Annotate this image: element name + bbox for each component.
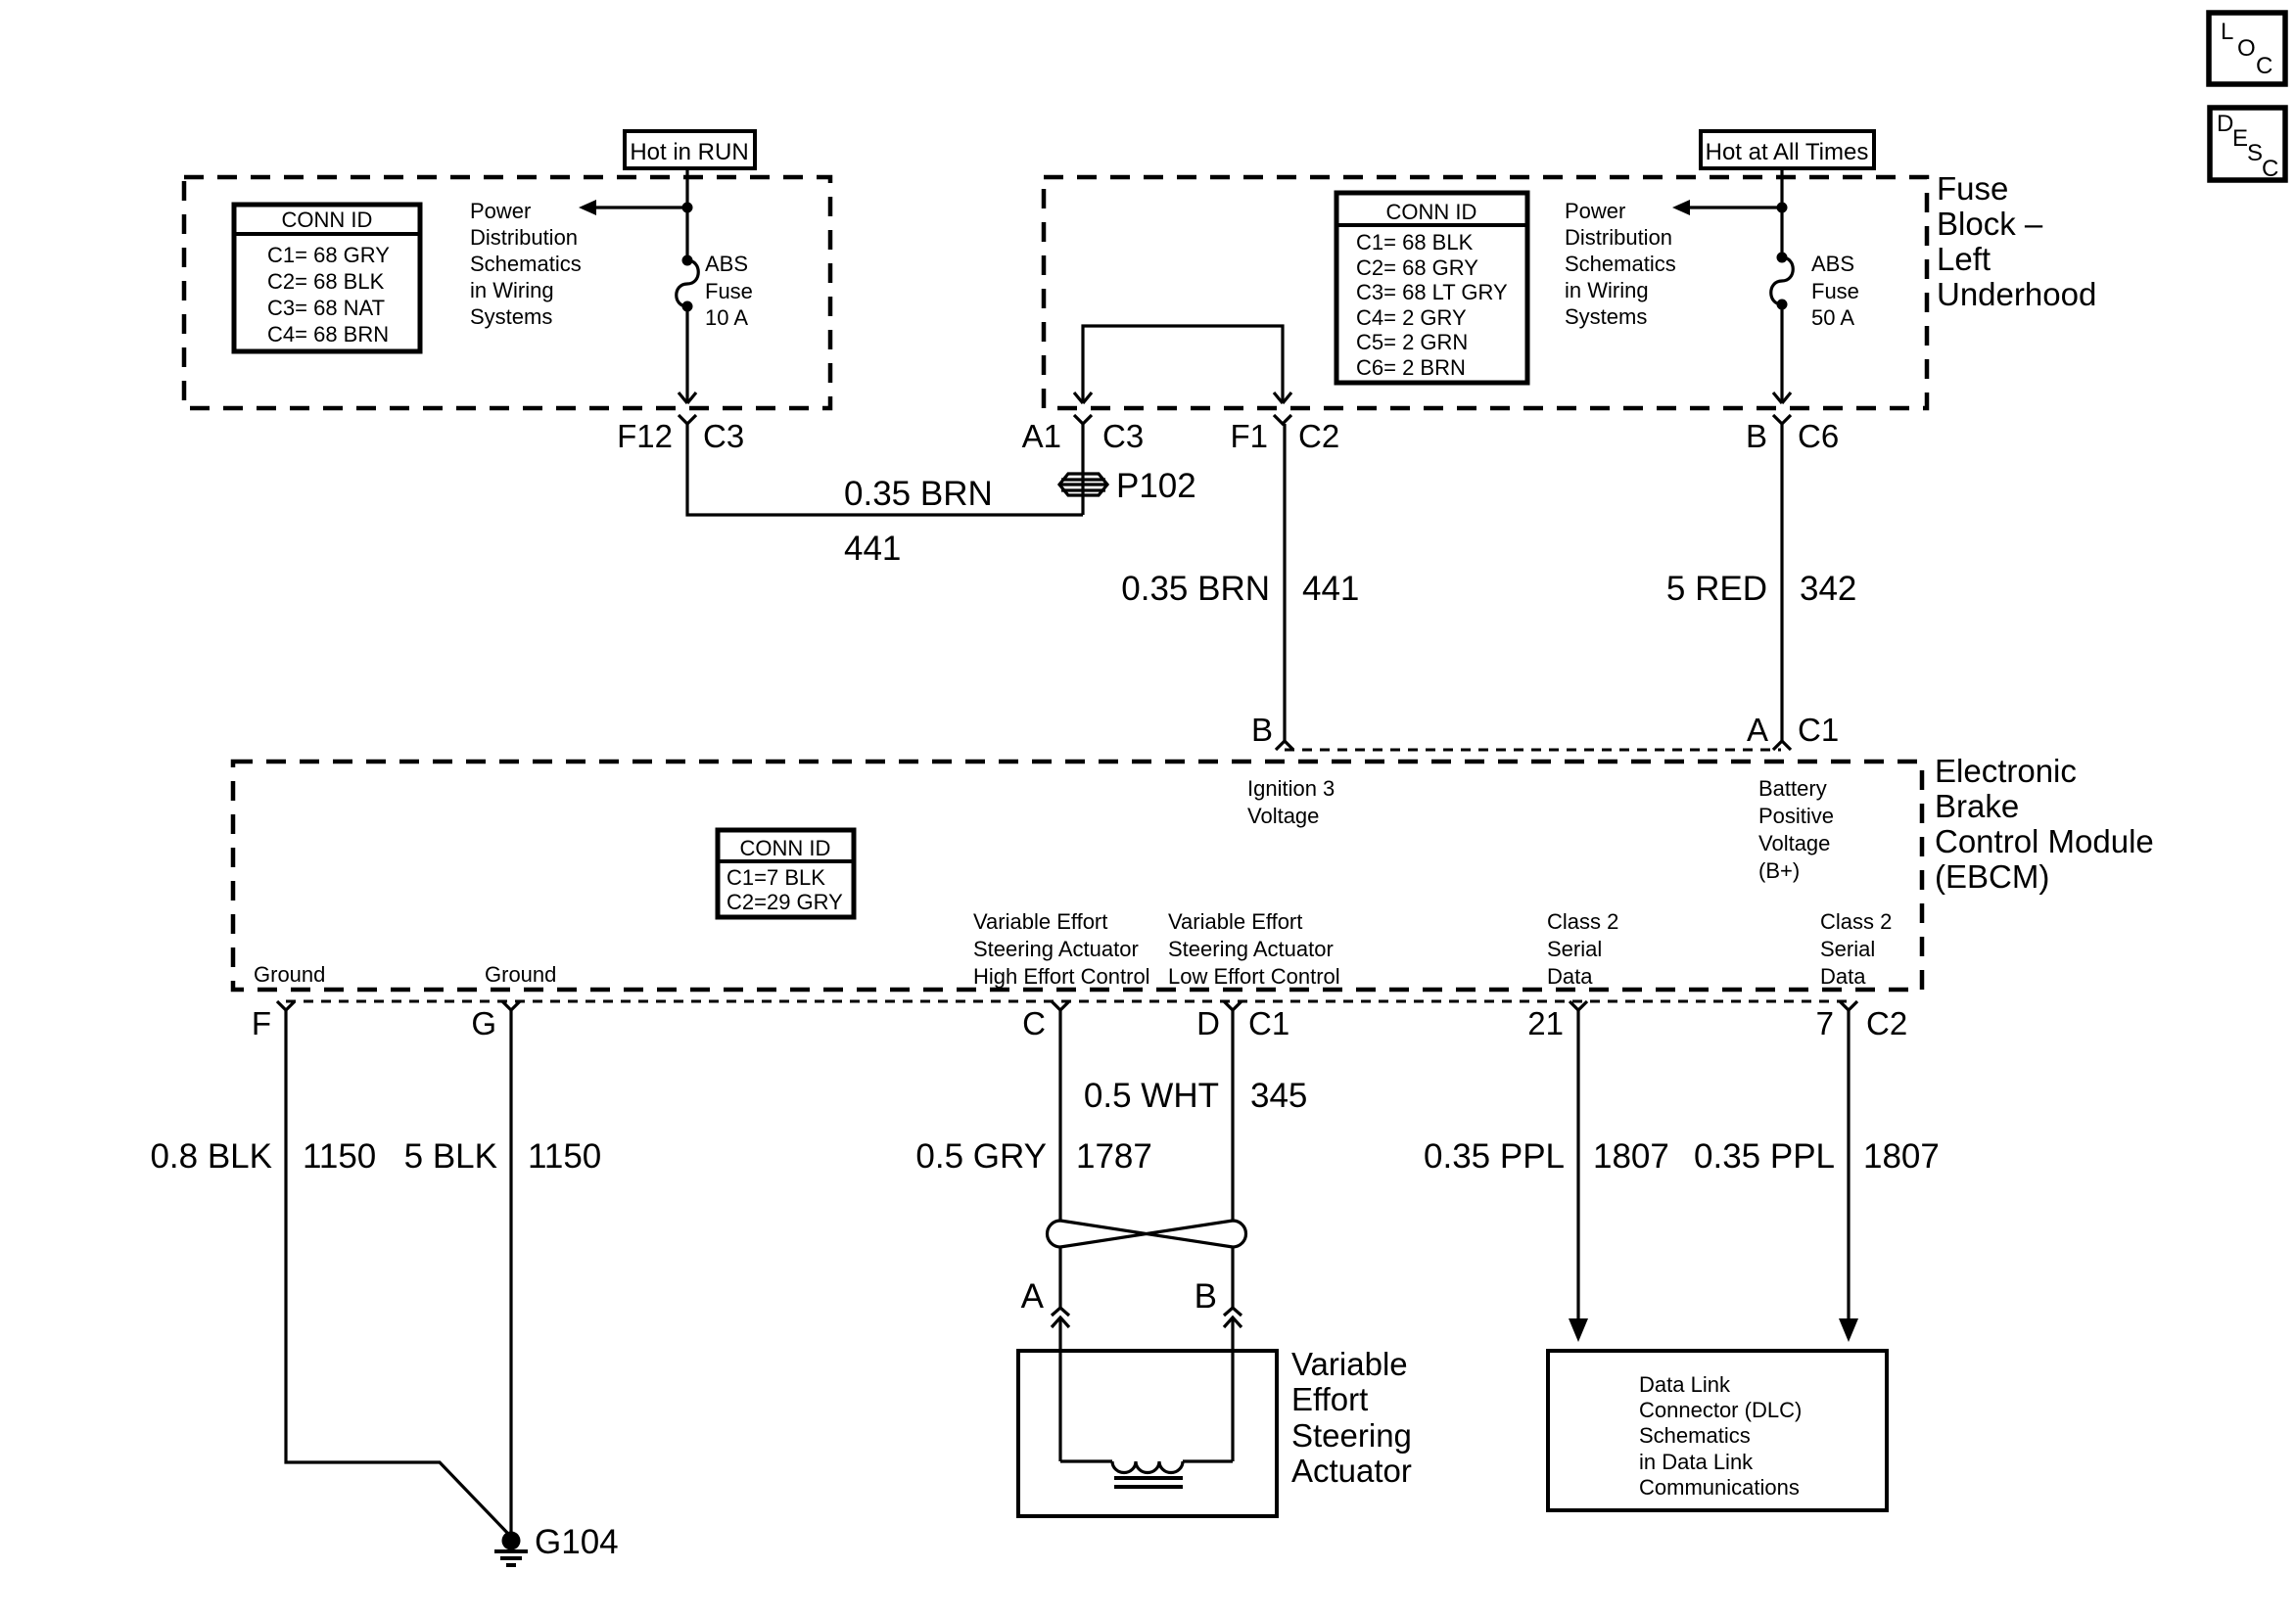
label box Hot in RUN <box>625 131 755 168</box>
svg-text:0.35 PPL: 0.35 PPL <box>1424 1137 1565 1176</box>
fuse ABS Fuse 10 A <box>677 252 753 330</box>
svg-text:Effort: Effort <box>1291 1381 1368 1417</box>
wire 441 from F12 to splice P102 <box>687 424 1083 515</box>
svg-text:ABS: ABS <box>705 252 748 276</box>
svg-text:O: O <box>2237 35 2256 62</box>
svg-text:1150: 1150 <box>303 1137 376 1176</box>
svg-text:Fuse: Fuse <box>705 279 753 303</box>
svg-text:Class 2: Class 2 <box>1547 909 1618 934</box>
node junction dot <box>682 203 693 213</box>
svg-text:0.35 BRN: 0.35 BRN <box>1121 570 1270 608</box>
svg-text:342: 342 <box>1800 570 1856 608</box>
svg-text:C6= 2 BRN: C6= 2 BRN <box>1356 355 1466 380</box>
svg-text:P102: P102 <box>1116 467 1196 505</box>
wire from Hot at All Times to fuse 50A <box>1780 168 1783 257</box>
wire pin 21 to DLC circuit 1807 <box>1576 1010 1579 1319</box>
svg-text:C: C <box>1022 1005 1046 1041</box>
wire pin D circuit 345 <box>1231 1010 1234 1461</box>
svg-text:C1=7 BLK: C1=7 BLK <box>726 865 825 890</box>
svg-text:C: C <box>2262 156 2278 182</box>
pin F connector <box>277 1001 295 1010</box>
arrow into pin B <box>1773 393 1791 403</box>
svg-text:Voltage: Voltage <box>1758 831 1830 855</box>
svg-text:10 A: 10 A <box>705 305 748 330</box>
svg-text:Distribution: Distribution <box>470 225 578 250</box>
wire from Hot in RUN to fuse F10A <box>685 168 688 260</box>
svg-text:Battery: Battery <box>1758 776 1827 801</box>
internal bus wire A1 to F1 <box>1083 326 1283 403</box>
svg-text:Fuse: Fuse <box>1937 170 2008 207</box>
svg-text:C2=29 GRY: C2=29 GRY <box>726 890 843 914</box>
svg-text:S: S <box>2247 140 2263 166</box>
wire arrow to power distribution <box>1687 206 1782 208</box>
CONN ID table fuse block left underhood <box>1336 193 1527 383</box>
svg-text:C2= 68 BLK: C2= 68 BLK <box>267 269 385 294</box>
actuator coil inductor <box>1060 1461 1233 1487</box>
svg-text:A: A <box>1747 712 1768 748</box>
svg-text:Steering: Steering <box>1291 1417 1412 1454</box>
svg-text:0.5 GRY: 0.5 GRY <box>915 1137 1047 1176</box>
svg-text:0.5 WHT: 0.5 WHT <box>1084 1077 1219 1115</box>
pin B of actuator <box>1224 1308 1242 1327</box>
svg-text:Variable Effort: Variable Effort <box>973 909 1107 934</box>
svg-text:Variable: Variable <box>1291 1346 1408 1382</box>
svg-text:D: D <box>1196 1005 1220 1041</box>
svg-text:Control Module: Control Module <box>1935 823 2154 859</box>
svg-text:C2: C2 <box>1866 1005 1907 1041</box>
pin 7 C2 connector <box>1840 1001 1857 1010</box>
svg-text:Hot in RUN: Hot in RUN <box>630 139 748 165</box>
DESC reference box <box>2210 108 2285 182</box>
svg-text:C1= 68 GRY: C1= 68 GRY <box>267 243 390 267</box>
svg-text:B: B <box>1251 712 1273 748</box>
svg-text:E: E <box>2232 125 2248 152</box>
pin F1 C2 connector <box>1274 415 1291 424</box>
svg-text:G: G <box>471 1005 496 1041</box>
svg-text:345: 345 <box>1250 1077 1307 1115</box>
svg-text:441: 441 <box>844 530 901 568</box>
svg-text:C2= 68 GRY: C2= 68 GRY <box>1356 255 1478 280</box>
svg-text:Fuse: Fuse <box>1811 279 1859 303</box>
svg-text:Serial: Serial <box>1547 937 1602 961</box>
svg-text:Serial: Serial <box>1820 937 1875 961</box>
svg-text:B: B <box>1195 1277 1217 1316</box>
svg-text:Electronic: Electronic <box>1935 753 2077 789</box>
svg-text:in Wiring: in Wiring <box>470 278 554 302</box>
svg-text:Ignition 3: Ignition 3 <box>1247 776 1335 801</box>
svg-text:Power: Power <box>470 199 531 223</box>
svg-text:Low Effort Control: Low Effort Control <box>1168 964 1340 989</box>
svg-text:Brake: Brake <box>1935 788 2019 824</box>
svg-text:21: 21 <box>1527 1005 1564 1041</box>
splice P102 <box>1059 467 1196 505</box>
svg-text:ABS: ABS <box>1811 252 1854 276</box>
wire pin C circuit 1787 <box>1058 1010 1061 1461</box>
svg-text:CONN ID: CONN ID <box>740 836 831 860</box>
svg-text:Voltage: Voltage <box>1247 804 1319 828</box>
EBCM connector line top <box>1285 749 1781 752</box>
svg-text:F1: F1 <box>1230 418 1268 454</box>
pin G connector <box>502 1001 520 1010</box>
svg-text:5 RED: 5 RED <box>1666 570 1767 608</box>
svg-text:Communications: Communications <box>1639 1475 1800 1500</box>
svg-text:CONN ID: CONN ID <box>1386 200 1477 224</box>
svg-text:7: 7 <box>1816 1005 1834 1041</box>
svg-text:C3= 68 LT GRY: C3= 68 LT GRY <box>1356 280 1508 304</box>
svg-text:Class 2: Class 2 <box>1820 909 1892 934</box>
svg-text:C1: C1 <box>1248 1005 1289 1041</box>
svg-text:0.8 BLK: 0.8 BLK <box>150 1137 272 1176</box>
svg-text:Steering Actuator: Steering Actuator <box>1168 937 1334 961</box>
svg-text:1807: 1807 <box>1593 1137 1669 1176</box>
svg-text:Ground: Ground <box>485 962 556 987</box>
svg-text:Data: Data <box>1820 964 1866 989</box>
svg-text:F: F <box>252 1005 271 1041</box>
LOC reference box <box>2209 13 2285 84</box>
pin A1 C3 connector <box>1074 415 1092 424</box>
wire F1 to EBCM pin B circuit 441 <box>1283 424 1286 741</box>
svg-text:Underhood: Underhood <box>1937 276 2096 312</box>
twisted pair symbol <box>1048 1221 1246 1247</box>
pin C connector <box>1052 1001 1069 1010</box>
EBCM connector line bottom <box>286 1000 1849 1003</box>
svg-text:Schematics: Schematics <box>1565 252 1676 276</box>
svg-text:0.35 PPL: 0.35 PPL <box>1694 1137 1835 1176</box>
label box Hot at All Times <box>1701 131 1874 168</box>
svg-text:Variable Effort: Variable Effort <box>1168 909 1302 934</box>
svg-text:C4= 68 BRN: C4= 68 BRN <box>267 322 389 346</box>
wire fuse to pin F12 <box>685 306 688 403</box>
svg-text:C1= 68 BLK: C1= 68 BLK <box>1356 230 1474 254</box>
svg-text:Hot at All Times: Hot at All Times <box>1706 139 1869 165</box>
svg-text:Data: Data <box>1547 964 1593 989</box>
arrow into pin A1 <box>1074 393 1092 403</box>
node junction dot <box>1777 203 1788 213</box>
pin B of EBCM <box>1276 741 1293 750</box>
svg-text:Schematics: Schematics <box>1639 1423 1751 1448</box>
CONN ID table fuse block I/P <box>234 205 420 351</box>
svg-text:1150: 1150 <box>528 1137 601 1176</box>
pin B C6 connector <box>1773 415 1791 424</box>
svg-text:Power: Power <box>1565 199 1625 223</box>
wire pin 7 to DLC circuit 1807 <box>1847 1010 1850 1319</box>
svg-text:50 A: 50 A <box>1811 305 1854 330</box>
svg-text:Actuator: Actuator <box>1291 1453 1412 1489</box>
svg-text:Connector (DLC): Connector (DLC) <box>1639 1398 1802 1422</box>
svg-text:Ground: Ground <box>254 962 325 987</box>
EBCM dashed outline <box>233 762 1922 990</box>
arrow into connector F12 <box>679 393 696 403</box>
svg-text:Positive: Positive <box>1758 804 1834 828</box>
svg-text:Systems: Systems <box>470 304 552 329</box>
svg-text:(EBCM): (EBCM) <box>1935 858 2049 895</box>
svg-text:1787: 1787 <box>1076 1137 1152 1176</box>
svg-text:G104: G104 <box>535 1523 619 1561</box>
svg-text:1807: 1807 <box>1863 1137 1940 1176</box>
svg-text:Data Link: Data Link <box>1639 1372 1731 1397</box>
wire arrow to power distribution <box>593 206 687 208</box>
svg-text:Left: Left <box>1937 241 1991 277</box>
data link connector DLC box <box>1548 1351 1887 1510</box>
variable effort steering actuator box <box>1018 1351 1277 1516</box>
svg-text:F12: F12 <box>617 418 673 454</box>
svg-text:in Wiring: in Wiring <box>1565 278 1649 302</box>
fuse block I/P dashed outline <box>184 177 830 408</box>
svg-text:Block –: Block – <box>1937 206 2043 242</box>
pin A C1 of EBCM <box>1773 741 1791 750</box>
svg-text:D: D <box>2217 111 2233 137</box>
svg-text:C5= 2 GRN: C5= 2 GRN <box>1356 330 1468 354</box>
svg-text:C3= 68 NAT: C3= 68 NAT <box>267 296 385 320</box>
wire C6 to EBCM pin A circuit 342 <box>1780 424 1783 741</box>
svg-text:CONN ID: CONN ID <box>282 208 373 232</box>
pin A of actuator <box>1052 1308 1069 1327</box>
pin 21 connector <box>1570 1001 1587 1010</box>
fuse block left underhood dashed outline <box>1044 177 1927 408</box>
svg-text:B: B <box>1746 418 1767 454</box>
ground G104 <box>494 1523 619 1565</box>
pin D C1 connector <box>1224 1001 1242 1010</box>
svg-text:441: 441 <box>1302 570 1359 608</box>
svg-text:(B+): (B+) <box>1758 858 1800 883</box>
svg-text:A: A <box>1021 1277 1045 1316</box>
svg-text:in Data Link: in Data Link <box>1639 1450 1754 1474</box>
svg-text:C: C <box>2256 53 2273 79</box>
svg-text:Distribution: Distribution <box>1565 225 1672 250</box>
wire pin G ground circuit 1150 <box>509 1010 512 1537</box>
wire pin F ground circuit 1150 <box>286 1010 511 1537</box>
svg-text:Steering Actuator: Steering Actuator <box>973 937 1139 961</box>
svg-text:0.35 BRN: 0.35 BRN <box>844 475 993 513</box>
arrow into pin F1 <box>1274 393 1291 403</box>
svg-text:C4= 2 GRY: C4= 2 GRY <box>1356 305 1467 330</box>
pin F12 C3 connector <box>679 415 696 424</box>
svg-text:C2: C2 <box>1298 418 1339 454</box>
svg-text:Systems: Systems <box>1565 304 1647 329</box>
svg-text:C1: C1 <box>1798 712 1839 748</box>
wire fuse 50A to pin B <box>1780 304 1783 403</box>
svg-text:L: L <box>2221 19 2233 45</box>
svg-text:C6: C6 <box>1798 418 1839 454</box>
svg-text:A1: A1 <box>1022 418 1061 454</box>
CONN ID table EBCM <box>718 830 854 917</box>
svg-text:5 BLK: 5 BLK <box>404 1137 497 1176</box>
fuse ABS Fuse 50 A <box>1771 252 1859 330</box>
wire A1 down through splice P102 <box>1081 424 1084 515</box>
svg-text:C3: C3 <box>703 418 744 454</box>
svg-text:Schematics: Schematics <box>470 252 582 276</box>
svg-text:C3: C3 <box>1102 418 1144 454</box>
svg-text:High Effort Control: High Effort Control <box>973 964 1150 989</box>
